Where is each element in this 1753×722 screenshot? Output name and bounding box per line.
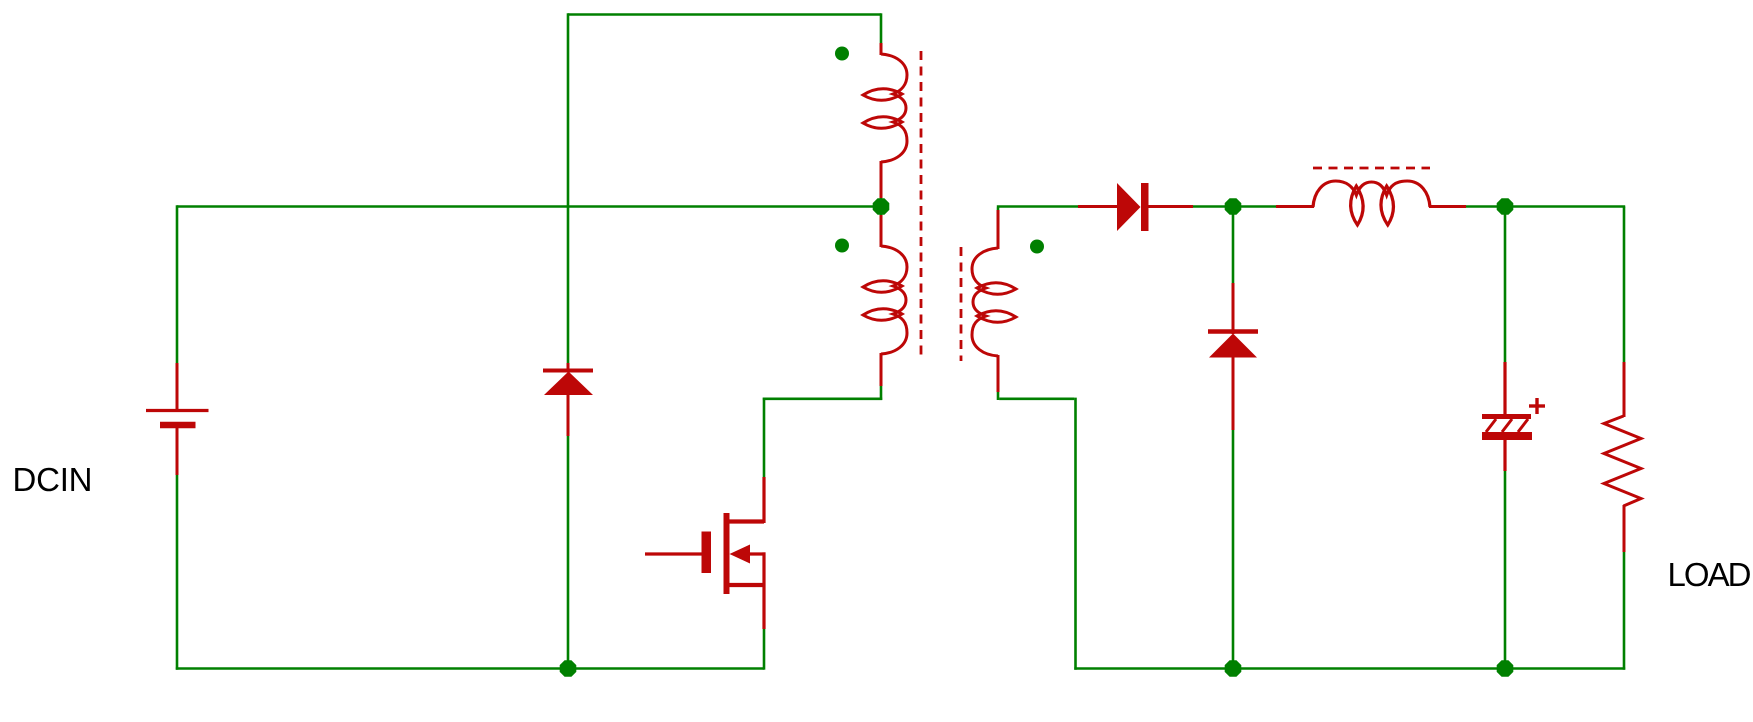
polarity dot: secondary winding — [1030, 240, 1044, 254]
node: inductor/cap junction — [1497, 198, 1514, 215]
wire: reset winding top lead — [880, 43, 883, 55]
wire: bottom right rail — [1074, 667, 1625, 670]
wire: load branch top vertical — [1623, 207, 1626, 363]
wire: freewheel junction down — [1232, 206, 1235, 284]
wire: inductor right lead — [1429, 205, 1466, 208]
wire: battery bottom vertical — [176, 475, 179, 670]
wire: clamp diode to bottom rail — [567, 436, 570, 670]
wire: primary bottom to drain: down-left-down — [880, 386, 883, 400]
inductor L3 (reset winding) — [863, 54, 907, 162]
transformer core (dashed) right — [960, 247, 963, 361]
node: primary/reset junction — [873, 198, 890, 215]
wire: reset winding bottom to junction — [880, 196, 883, 207]
wire: battery top vertical — [176, 205, 179, 364]
wire: cap branch top vertical — [1504, 205, 1507, 362]
polarity dot: primary winding — [835, 239, 849, 253]
wire: top reset loop horizontal — [568, 13, 881, 16]
svg-text:DCIN: DCIN — [13, 461, 93, 498]
wire: reset winding bottom lead — [880, 161, 883, 198]
node: clamp ground junction — [560, 660, 577, 677]
wire: rectifier to freewheel junction — [1193, 205, 1276, 208]
wire: mosfet source to bottom rail — [763, 629, 766, 670]
diode D1 (output rectifier, points right) — [1078, 183, 1193, 231]
node: freewheel ground junction — [1225, 660, 1242, 677]
svg-text:LOAD: LOAD — [1668, 556, 1752, 593]
wire: secondary top lead — [997, 210, 1000, 249]
transformer core (dashed) left — [920, 51, 923, 361]
diode D3 (reset clamp, cathode up) — [543, 363, 593, 436]
inductor L4 (output filter) — [1313, 181, 1430, 225]
diode D2 (freewheel, cathode up) — [1208, 283, 1258, 430]
inductor L1 (primary winding) — [863, 246, 907, 354]
wire: secondary bottom lead — [997, 355, 1000, 392]
polarity dot: reset winding — [835, 47, 849, 61]
wire: clamp branch vertical (crosses main rail, no junction) — [567, 13, 570, 364]
wire: freewheel diode to bottom rail — [1232, 430, 1235, 670]
wire: bottom left rail — [176, 667, 764, 670]
wire: cap bottom vertical — [1504, 471, 1507, 670]
node: rectifier/freewheel junction — [1225, 198, 1242, 215]
wire: secondary bottom L-wire — [997, 392, 1000, 400]
wire: inductor out to load corner — [1466, 205, 1625, 208]
inductor core (dashed) — [1313, 167, 1430, 170]
node: cap ground junction — [1497, 660, 1514, 677]
wire: load bottom vertical — [1623, 552, 1626, 670]
wire: secondary top lead to output rail — [997, 208, 1000, 213]
wire: primary bottom lead — [880, 353, 883, 386]
wire: reset loop corner down — [880, 13, 883, 44]
wire: inductor left lead — [1276, 205, 1314, 208]
transistor M1 (NMOS switch) — [645, 477, 766, 629]
wire: main input rail — [177, 205, 881, 208]
inductor L2 (secondary winding) — [972, 248, 1016, 356]
capacitor C1 (polarized output cap) — [1482, 362, 1545, 471]
battery V1 (DC input source) — [146, 363, 209, 475]
wire: primary top lead — [880, 215, 883, 247]
wire: junction to primary top — [880, 206, 883, 218]
resistor R1 (load) — [1604, 362, 1641, 552]
wire: output rail: secondary to rectifier — [997, 205, 1078, 208]
